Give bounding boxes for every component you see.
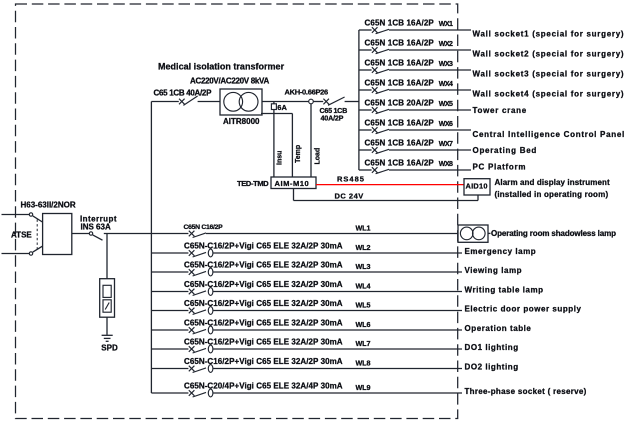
svg-text:Wall socket3 (special for surg: Wall socket3 (special for surgery) <box>473 69 625 78</box>
wire: main vertical bus <box>150 102 152 394</box>
svg-text:Wall socket1 (special for surg: Wall socket1 (special for surgery) <box>473 29 625 38</box>
svg-text:AITR8000: AITR8000 <box>223 117 260 126</box>
wire: WX6 branch <box>359 129 372 131</box>
breaker WX4 C65N 1CB 16A/2P <box>372 87 389 94</box>
wire: breaker QF2 to WX bus <box>345 101 359 103</box>
svg-text:Viewing lamp: Viewing lamp <box>465 266 523 275</box>
insulation monitor U1 AIM-M10 <box>271 177 316 189</box>
svg-text:Operation table: Operation table <box>465 324 532 333</box>
svg-text:WL2: WL2 <box>356 243 371 252</box>
svg-text:TED-TMD: TED-TMD <box>237 179 269 188</box>
svg-text:C65N 1CB 16A/2P: C65N 1CB 16A/2P <box>365 159 435 168</box>
breaker WL2 C65N-C16/2P+Vigi <box>189 249 213 257</box>
wire: WX4 branch <box>359 89 372 91</box>
breaker WX6 C65N 1CB 16A/2P <box>372 127 389 134</box>
wire: WX7 branch <box>359 149 372 151</box>
surge protective device SPD <box>100 279 115 318</box>
breaker WL6 C65N-C16/2P+Vigi <box>189 326 213 334</box>
alarm display instrument U2 AID10 <box>464 179 490 195</box>
svg-text:Medical isolation transforme: Medical isolation transformer <box>158 62 285 72</box>
svg-text:AIM-M10: AIM-M10 <box>275 179 310 188</box>
fuse F1 6A <box>271 104 276 110</box>
wire: WL7 to load <box>213 348 462 350</box>
svg-text:Load: Load <box>314 148 321 165</box>
wire: WX2 branch <box>359 49 372 51</box>
breaker WX2 C65N 1CB 16A/2P <box>372 47 389 54</box>
svg-text:C65 1CB 40A/2P: C65 1CB 40A/2P <box>154 89 213 98</box>
breaker WX1 C65N 1CB 16A/2P <box>372 27 389 34</box>
svg-text:C65N 1CB 16A/2P: C65N 1CB 16A/2P <box>365 39 435 48</box>
wire: fuse to AIM-M10 <box>273 110 275 178</box>
wire: WL5 to load <box>213 310 462 312</box>
svg-text:WL3: WL3 <box>356 262 371 271</box>
current transformer node AKH-0.66P26 <box>309 99 314 104</box>
svg-text:Central Intelligence Control P: Central Intelligence Control Panel <box>473 130 625 139</box>
wire: fused monitor tap <box>273 102 275 104</box>
svg-text:C65N-C16/2P+Vigi C65 ELE 32A/2: C65N-C16/2P+Vigi C65 ELE 32A/2P 30mA <box>184 318 343 327</box>
wire: WX1 branch <box>359 29 372 31</box>
wire: WL2 to load <box>213 252 462 254</box>
svg-text:Insu: Insu <box>277 151 284 165</box>
svg-text:Emergency lamp: Emergency lamp <box>465 247 537 256</box>
lamp symbol: operating room shadowless lamp <box>458 225 491 242</box>
breaker WX8 C65N 1CB 16A/2P <box>372 167 389 174</box>
wire: RS485 link (red) <box>316 184 464 186</box>
svg-text:WL7: WL7 <box>356 339 371 348</box>
svg-text:WL9: WL9 <box>356 383 371 392</box>
wire: WX3 to load <box>389 69 471 71</box>
breaker WL3 C65N-C16/2P+Vigi <box>189 268 213 276</box>
wire: WL5 branch <box>151 310 188 312</box>
wire: WL9 to load <box>213 392 462 394</box>
svg-text:SPD: SPD <box>101 344 118 353</box>
svg-text:WX4: WX4 <box>439 81 453 88</box>
wire: WL2 branch <box>151 252 188 254</box>
svg-text:C65N 1CB 16A/2P: C65N 1CB 16A/2P <box>365 119 435 128</box>
svg-text:40A/2P: 40A/2P <box>321 114 344 123</box>
svg-text:WL5: WL5 <box>356 301 371 310</box>
svg-text:C65N-C20/4P+Vigi C65 ELE 32A/4: C65N-C20/4P+Vigi C65 ELE 32A/4P 30mA <box>184 381 343 390</box>
breaker WX7 C65N 1CB 16A/2P <box>372 147 389 154</box>
wire: WX bus <box>358 30 360 170</box>
wire: WX4 to load <box>389 89 471 91</box>
svg-text:C65N-C16/2P+Vigi C65 ELE 32A/2: C65N-C16/2P+Vigi C65 ELE 32A/2P 30mA <box>184 241 343 250</box>
wire: WL8 branch <box>151 368 188 370</box>
wire: WL1 to shadowless lamp <box>206 233 458 235</box>
isolation transformer T1 AITR8000 <box>220 89 262 115</box>
breaker WL9 C65N-C20/4P+Vigi <box>189 389 213 397</box>
wire: WX8 branch <box>359 169 372 171</box>
breaker WL5 C65N-C16/2P+Vigi <box>189 307 213 315</box>
svg-text:C65N 1CB 16A/2P: C65N 1CB 16A/2P <box>365 59 435 68</box>
svg-text:WX7: WX7 <box>439 141 453 148</box>
wire: ATSE output <box>72 233 89 235</box>
wire: WL8 to load <box>213 368 462 370</box>
wire: WL1 branch <box>151 233 188 235</box>
wire: CT load signal to AIM-M10 <box>310 104 312 177</box>
wire: node to breaker QF2 <box>313 101 323 103</box>
svg-text:AID10: AID10 <box>466 182 488 191</box>
wire: WL4 branch <box>151 291 188 293</box>
svg-text:WL6: WL6 <box>356 320 371 329</box>
svg-text:Temp: Temp <box>295 145 302 163</box>
svg-text:WX6: WX6 <box>439 121 453 128</box>
wire: WL7 branch <box>151 348 188 350</box>
ground <box>102 335 113 341</box>
svg-text:C65N 1CB 16A/2P: C65N 1CB 16A/2P <box>365 79 435 88</box>
svg-text:C65N-C16/2P+Vigi C65 ELE 32A/2: C65N-C16/2P+Vigi C65 ELE 32A/2P 30mA <box>184 280 343 289</box>
breaker WL8 C65N-C16/2P+Vigi <box>189 365 213 373</box>
wire: WX5 branch <box>359 109 372 111</box>
wire: breaker QF1 to transformer <box>198 101 220 103</box>
svg-text:Writing table lamp: Writing table lamp <box>465 285 544 294</box>
svg-text:DO2 lighting: DO2 lighting <box>465 362 519 371</box>
svg-text:6A: 6A <box>277 103 287 112</box>
svg-text:DO1 lighting: DO1 lighting <box>465 343 519 352</box>
svg-text:C65N 1CB 16A/2P: C65N 1CB 16A/2P <box>365 19 435 28</box>
wire: WL4 to load <box>213 291 462 293</box>
wire: WX2 to load <box>389 49 471 51</box>
breaker WL1 C65N <box>189 231 206 238</box>
svg-text:Alarm and display instrument: Alarm and display instrument <box>495 178 611 187</box>
svg-text:(installed in operating room): (installed in operating room) <box>495 190 609 199</box>
svg-text:C65N C16/2P: C65N C16/2P <box>184 224 224 231</box>
svg-text:C65N 1CB 16A/2P: C65N 1CB 16A/2P <box>365 139 435 148</box>
wire: WL3 to load <box>213 271 462 273</box>
svg-text:ATSE: ATSE <box>11 231 32 240</box>
isolating switch QS Interrupt INS 63A <box>89 232 102 240</box>
wire: WX7 to load <box>389 149 471 151</box>
svg-text:H63-63II/2NOR: H63-63II/2NOR <box>21 200 76 209</box>
wire: incoming supply 2 <box>2 253 30 255</box>
wire: bus to breaker QF1 <box>151 101 178 103</box>
wire: feeder to main bus <box>104 233 152 235</box>
svg-text:WX1: WX1 <box>439 21 453 28</box>
wire: SPD to ground <box>106 317 108 335</box>
breaker WL7 C65N-C16/2P+Vigi <box>189 345 213 353</box>
wire: WX6 to load <box>389 129 471 131</box>
breaker WX3 C65N 1CB 16A/2P <box>372 67 389 74</box>
wire: transformer to CT node <box>262 101 309 103</box>
wire: DC 24V supply <box>294 189 479 201</box>
svg-text:Operating Bed: Operating Bed <box>473 146 537 155</box>
svg-text:AC220V/AC220V 8kVA: AC220V/AC220V 8kVA <box>190 76 269 85</box>
svg-text:WL1: WL1 <box>356 224 371 233</box>
breaker WL4 C65N-C16/2P+Vigi <box>189 288 213 296</box>
wire: WL3 branch <box>151 271 188 273</box>
breaker QF1 C65 1CB 40A/2P <box>179 96 198 105</box>
svg-text:Wall socket4 (special for surg: Wall socket4 (special for surgery) <box>473 89 625 98</box>
wire: SPD branch <box>106 234 108 279</box>
wire: WX3 branch <box>359 69 372 71</box>
svg-text:WL4: WL4 <box>356 282 371 291</box>
svg-text:WX5: WX5 <box>439 101 453 108</box>
svg-text:PC Platform: PC Platform <box>473 162 527 171</box>
svg-text:Wall socket2 (special for surg: Wall socket2 (special for surgery) <box>473 49 625 58</box>
wire: WL6 branch <box>151 329 188 331</box>
svg-text:Electric door power supply: Electric door power supply <box>465 304 582 313</box>
wire: incoming supply 1 <box>2 214 30 216</box>
svg-text:RS485: RS485 <box>337 174 365 183</box>
svg-text:Operating room shadowless lamp: Operating room shadowless lamp <box>491 229 616 238</box>
wire: WX8 to load <box>389 169 471 171</box>
wire: WL6 to load <box>213 329 462 331</box>
svg-text:C65N-C16/2P+Vigi C65 ELE 32A/2: C65N-C16/2P+Vigi C65 ELE 32A/2P 30mA <box>184 299 343 308</box>
wire: WL9 branch <box>151 392 188 394</box>
svg-text:C65N-C16/2P+Vigi C65 ELE 32A/2: C65N-C16/2P+Vigi C65 ELE 32A/2P 30mA <box>184 357 343 366</box>
svg-text:WX2: WX2 <box>439 41 453 48</box>
wire: WX1 to load <box>389 29 471 31</box>
svg-text:INS 63A: INS 63A <box>81 222 111 231</box>
svg-text:C65N 1CB 20A/2P: C65N 1CB 20A/2P <box>365 99 435 108</box>
svg-text:WX8: WX8 <box>439 161 453 168</box>
breaker QF2 C65 1CB 40A/2P <box>323 97 344 105</box>
svg-text:Tower crane: Tower crane <box>473 106 527 115</box>
svg-text:DC 24V: DC 24V <box>335 192 364 201</box>
svg-text:Three-phase socket ( reserve): Three-phase socket ( reserve) <box>465 387 587 396</box>
svg-text:WX3: WX3 <box>439 61 453 68</box>
wire: transformer temp sensor to AIM-M10 <box>261 114 292 178</box>
svg-text:AKH-0.66P26: AKH-0.66P26 <box>285 88 329 97</box>
svg-text:C65N-C16/2P+Vigi C65 ELE 32A/2: C65N-C16/2P+Vigi C65 ELE 32A/2P 30mA <box>184 260 343 269</box>
ATSE transfer switch H63-63II/2NOR <box>29 213 72 255</box>
svg-text:WL8: WL8 <box>356 359 371 368</box>
wire: WX5 to load <box>389 109 471 111</box>
svg-text:C65N-C16/2P+Vigi C65 ELE 32A/2: C65N-C16/2P+Vigi C65 ELE 32A/2P 30mA <box>184 337 343 346</box>
breaker WX5 C65N 1CB 20A/2P <box>372 107 389 114</box>
